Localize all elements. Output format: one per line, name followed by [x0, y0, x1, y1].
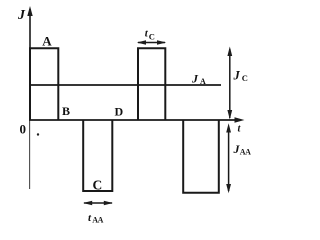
anodic pulse (second, cathodic-width marked)	[138, 48, 165, 120]
svg-text:B: B	[62, 104, 70, 118]
t_C width arrow (double headed)	[138, 42, 165, 44]
svg-text:C: C	[149, 31, 155, 41]
svg-text:AA: AA	[92, 215, 103, 224]
svg-text:J: J	[17, 8, 26, 23]
t axis arrowhead	[235, 117, 245, 122]
J axis vertical line	[29, 9, 31, 120]
J axis arrowhead	[27, 6, 32, 16]
svg-text:J: J	[233, 69, 241, 83]
t_AA width arrow (double headed)	[84, 202, 112, 204]
svg-text:0: 0	[20, 122, 27, 137]
stray dot near origin	[37, 133, 39, 135]
svg-text:D: D	[115, 105, 124, 119]
svg-text:C: C	[242, 73, 248, 83]
J_C magnitude arrow (double headed, from pulse top level to axis)	[229, 49, 231, 118]
anodic pulse A	[30, 48, 58, 120]
svg-text:A: A	[200, 77, 206, 86]
cathodic pulse C below axis	[83, 120, 112, 191]
svg-text:C: C	[93, 178, 103, 193]
t axis horizontal line	[29, 119, 238, 121]
svg-text:t: t	[238, 124, 242, 135]
second cathodic pulse below axis	[183, 120, 219, 193]
svg-text:AA: AA	[240, 147, 251, 156]
J_AA magnitude arrow (double headed, from below axis to pulse bottom)	[228, 127, 230, 191]
J axis extension below origin	[29, 120, 31, 189]
svg-text:J: J	[191, 72, 199, 86]
svg-text:A: A	[42, 33, 52, 48]
J_A level line	[30, 84, 221, 86]
